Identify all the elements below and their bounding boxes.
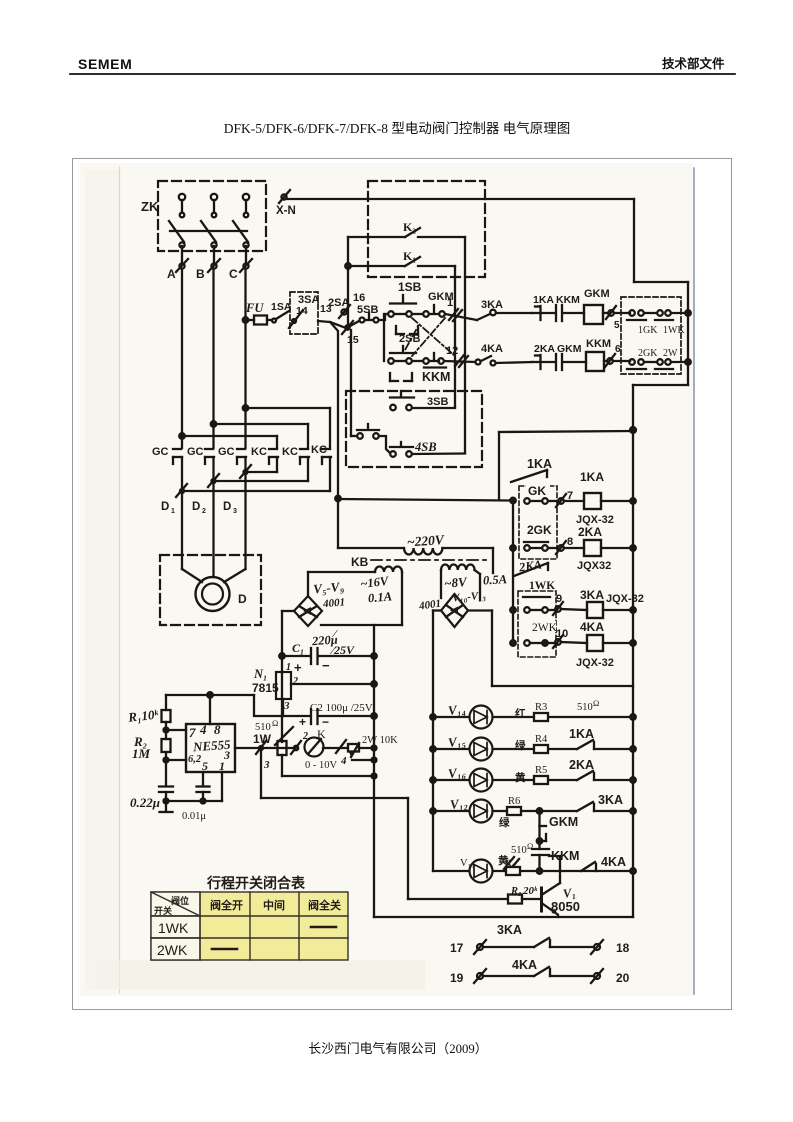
scan right blue edge	[693, 168, 695, 994]
terminal C	[229, 259, 252, 281]
relay K dashed box	[368, 181, 485, 277]
svg-text:Ω: Ω	[527, 841, 533, 851]
svg-text:+: +	[294, 660, 302, 675]
svg-text:5SB: 5SB	[357, 304, 378, 316]
svg-text:阀位: 阀位	[171, 895, 189, 906]
wire relay left rail	[510, 498, 516, 646]
svg-text:1GK: 1GK	[638, 325, 658, 336]
svg-text:−: −	[322, 658, 330, 673]
node GKM KKM junction	[537, 826, 546, 849]
contact K2	[348, 220, 465, 237]
svg-text:2SA: 2SA	[328, 297, 349, 309]
junction slash wire1	[449, 309, 462, 321]
footer company	[308, 1041, 487, 1056]
svg-text:+: +	[299, 715, 306, 729]
header dept label	[662, 56, 725, 71]
svg-text:1M: 1M	[132, 746, 151, 761]
timer NE555	[186, 722, 235, 773]
bridge rectifier V10-V13	[441, 594, 468, 627]
svg-text:0.22μ: 0.22μ	[130, 795, 160, 810]
svg-text:KC: KC	[282, 446, 298, 458]
svg-text:KKM: KKM	[422, 370, 450, 384]
svg-text:7815: 7815	[252, 681, 279, 695]
svg-text:JQX-32: JQX-32	[606, 593, 644, 605]
svg-text:18: 18	[616, 941, 630, 955]
wire A to motor	[182, 457, 202, 582]
svg-text:1: 1	[447, 297, 453, 309]
terminal 3 drop	[256, 741, 270, 798]
svg-text:0.1A: 0.1A	[367, 589, 392, 605]
contact 4KA terminals 19 20	[450, 958, 630, 985]
svg-text:D: D	[238, 592, 247, 606]
contact 2GK row	[524, 523, 556, 551]
breaker ZK dashed box	[141, 181, 266, 251]
node FU tap on C	[243, 317, 249, 323]
wire phase C drop	[244, 246, 247, 448]
contact 4KA	[476, 343, 533, 366]
svg-text:KKM: KKM	[586, 338, 611, 350]
table travel switch	[151, 892, 348, 960]
wire bottom rail	[374, 916, 633, 918]
svg-text:1WK: 1WK	[158, 920, 189, 936]
svg-text:C2 100μ /25V: C2 100μ /25V	[310, 702, 373, 714]
terminal 7	[556, 490, 584, 507]
junction slash wire12	[455, 355, 468, 367]
switch 3SA dashed box	[289, 292, 319, 334]
led V16 row yellow	[430, 758, 636, 792]
wire row2 to KKM contact	[412, 360, 423, 362]
wire row1 to GKM contact	[412, 313, 423, 315]
svg-text:9: 9	[556, 593, 562, 605]
wire bridge2 dc right	[468, 611, 633, 687]
svg-text:1: 1	[171, 508, 175, 515]
svg-text:KC: KC	[251, 446, 267, 458]
svg-text:4: 4	[199, 722, 207, 737]
wire pot bottom rail	[282, 774, 377, 779]
switch 2SA	[318, 297, 350, 328]
svg-text:开关: 开关	[154, 905, 172, 916]
svg-text:2KA: 2KA	[578, 525, 602, 539]
svg-text:FU: FU	[245, 301, 264, 315]
terminal 9	[553, 593, 587, 615]
node C junction	[243, 405, 249, 411]
wire pin6 2	[166, 759, 186, 761]
breaker ZK pole C	[233, 194, 249, 248]
transformer T2 8V	[441, 564, 480, 600]
svg-text:KKM: KKM	[556, 294, 580, 306]
contact GKM nc bars	[541, 343, 586, 370]
svg-text:15: 15	[347, 334, 359, 346]
wire pot to trimmer	[323, 740, 348, 753]
terminal 8	[556, 536, 584, 554]
pushbutton interlock lower	[351, 424, 390, 453]
svg-text:A: A	[167, 267, 176, 281]
coil 3KA	[580, 588, 644, 618]
contact KC 1	[251, 446, 278, 464]
transistor V1 8050	[542, 858, 580, 917]
header SEMEM	[78, 56, 132, 72]
svg-text:GC: GC	[187, 446, 204, 458]
svg-text:X-N: X-N	[276, 205, 296, 217]
svg-text:1KA: 1KA	[580, 470, 604, 484]
svg-text:4: 4	[340, 755, 347, 767]
wire KC1 to C	[246, 457, 278, 472]
wire relay top rail	[499, 431, 633, 500]
regulator N1 7815	[252, 662, 298, 712]
switch 5SB	[350, 304, 388, 326]
contact KKM seal-in	[422, 353, 450, 384]
wire KC2 to B	[214, 457, 309, 481]
node D labels	[161, 501, 237, 515]
wire KC3 to A	[182, 457, 330, 491]
resistor R1 10k	[126, 695, 170, 733]
wire lower rail	[261, 798, 408, 917]
terminal 5	[603, 306, 630, 331]
svg-text:GKM: GKM	[557, 343, 582, 355]
wire row2 to 4KA	[444, 361, 475, 362]
terminal slash C	[240, 465, 251, 478]
svg-text:V₁₄: V₁₄	[447, 701, 466, 718]
outer frame box	[73, 159, 732, 1010]
terminal block dashed box right	[621, 297, 681, 374]
svg-text:20: 20	[616, 971, 630, 985]
svg-text:V₅-V₉: V₅-V₉	[313, 579, 345, 597]
motor D dashed box	[160, 555, 261, 625]
wire row1 to bus	[671, 310, 691, 316]
contact 2WK row	[524, 621, 568, 646]
wire pin7	[166, 729, 186, 731]
svg-text:K: K	[317, 727, 326, 741]
svg-text:1: 1	[286, 662, 291, 673]
svg-text:4SB: 4SB	[414, 440, 437, 454]
breaker ZK pole B	[201, 194, 217, 248]
contact KC 3	[311, 444, 331, 464]
svg-text:4KA: 4KA	[512, 958, 537, 972]
contact 3KA	[477, 299, 532, 320]
svg-text:2: 2	[302, 731, 308, 742]
wire X-N bus	[287, 198, 634, 200]
svg-text:V₁₁: V₁₁	[460, 858, 475, 869]
fuse FU	[245, 301, 267, 325]
inductor KB primary 220V	[404, 532, 445, 555]
svg-text:2KA: 2KA	[569, 758, 594, 772]
svg-text:19: 19	[450, 971, 464, 985]
led V14 row red	[430, 698, 636, 729]
svg-text:2W: 2W	[663, 348, 678, 359]
svg-text:1WK: 1WK	[529, 580, 555, 592]
title	[224, 121, 571, 136]
wire control rail	[338, 499, 513, 501]
svg-text:GC: GC	[152, 446, 169, 458]
wire A to KC1	[182, 436, 277, 448]
led V11 row yellow	[433, 841, 636, 883]
svg-text:阀全开: 阀全开	[210, 898, 243, 912]
svg-text:B: B	[196, 267, 205, 281]
svg-text:16: 16	[353, 292, 365, 304]
contact GKM aux	[540, 811, 579, 829]
svg-text:~220V: ~220V	[406, 532, 445, 550]
svg-text:4KA: 4KA	[601, 855, 626, 869]
svg-text:GKM: GKM	[584, 288, 610, 300]
svg-text:ZK: ZK	[141, 199, 159, 214]
scan background tint	[80, 163, 694, 996]
wire B to KC2	[214, 424, 309, 448]
svg-text:0.5A: 0.5A	[483, 572, 508, 587]
svg-text:3SB: 3SB	[427, 396, 448, 408]
wire C to KC3	[246, 408, 331, 448]
led V15 row green	[430, 727, 636, 761]
svg-text:6,2: 6,2	[188, 754, 202, 765]
svg-text:3: 3	[233, 508, 237, 515]
svg-text:技术部文件: 技术部文件	[662, 56, 725, 71]
contact GC phase C	[218, 446, 246, 464]
svg-text:8: 8	[567, 536, 573, 548]
terminal slash A	[176, 484, 187, 497]
transformer T1 labels	[313, 574, 393, 611]
svg-text:2: 2	[292, 676, 298, 687]
svg-text:C₁: C₁	[292, 641, 304, 655]
button frame left bracket	[384, 314, 412, 381]
svg-text:1WK: 1WK	[663, 325, 685, 336]
wire 7815 bottom	[282, 699, 284, 716]
svg-text:3KA: 3KA	[580, 588, 604, 602]
bridge rectifier V5-V9	[294, 596, 322, 626]
node B junction	[211, 421, 217, 427]
wire pin3 out	[235, 747, 292, 749]
wire K1 right drop to 3SB	[454, 266, 456, 407]
svg-text:8050: 8050	[551, 899, 580, 914]
trimmer 2W 10K	[340, 735, 398, 767]
wire B to motor	[212, 457, 214, 577]
svg-text:D: D	[161, 501, 169, 513]
svg-text:C: C	[229, 267, 238, 281]
node 15	[342, 321, 359, 346]
wire 220V loop	[338, 499, 404, 549]
wire 15 drop	[350, 330, 352, 436]
wire 13 drop	[331, 323, 341, 501]
cam switch KB label	[351, 555, 490, 569]
svg-text:JQX-32: JQX-32	[576, 657, 614, 669]
wire bridge1 dc left	[282, 611, 294, 742]
wire left vert to pot rail	[281, 755, 283, 776]
svg-text:510: 510	[511, 845, 527, 856]
svg-text:3KA: 3KA	[598, 793, 623, 807]
svg-text:DFK-5/DFK-6/DFK-7/DFK-8 型电动阀门控: DFK-5/DFK-6/DFK-7/DFK-8 型电动阀门控制器 电气原理图	[224, 121, 571, 136]
svg-text:R3: R3	[535, 702, 547, 713]
svg-text:2WK: 2WK	[532, 622, 558, 634]
contact 1KA blade	[511, 457, 552, 482]
bus right frame	[630, 199, 688, 433]
svg-text:行程开关闭合表: 行程开关闭合表	[206, 875, 306, 891]
breaker ZK tie bar	[170, 230, 247, 232]
contact 2WK link	[644, 348, 678, 369]
svg-text:510: 510	[577, 702, 593, 713]
contact GK row	[524, 498, 556, 504]
coil 4KA	[576, 620, 636, 669]
terminal 10	[553, 635, 587, 648]
svg-text:1KA: 1KA	[527, 457, 552, 471]
svg-text:KKM: KKM	[551, 849, 579, 863]
svg-text:R₇: R₇	[503, 857, 516, 870]
pushbutton 3SB 4SB dashed box	[346, 391, 482, 467]
svg-text:阀全关: 阀全关	[308, 898, 341, 912]
terminal 6	[604, 344, 630, 367]
contact 1WK link	[644, 310, 685, 336]
resistor R8 20k	[408, 885, 540, 904]
wire K2 right drop to 4SB	[464, 237, 466, 453]
contact KKM aux bars	[532, 849, 579, 871]
svg-text:7: 7	[189, 725, 196, 740]
svg-text:4KA: 4KA	[481, 343, 503, 355]
svg-text:1KA: 1KA	[533, 294, 554, 306]
wire dc plus rail	[373, 625, 375, 798]
wire pin4 8	[209, 695, 211, 724]
capacitor 0.22u	[130, 760, 173, 812]
wire 220V right	[443, 548, 494, 573]
pushbutton 4SB	[390, 440, 465, 457]
svg-text:GK: GK	[528, 484, 546, 498]
transformer T1 16V secondary	[308, 567, 402, 626]
svg-text:V₁₆: V₁₆	[447, 764, 467, 781]
svg-text:Ω: Ω	[272, 718, 278, 728]
svg-text:绿: 绿	[515, 739, 526, 752]
contact GKM seal-in	[423, 291, 453, 317]
transformer T2 labels	[417, 572, 507, 612]
wire phase A drop	[181, 246, 183, 448]
contact 2KA blade	[514, 557, 548, 576]
header rule	[70, 73, 735, 75]
svg-text:KB: KB	[351, 555, 369, 569]
contact 2KA nc	[532, 343, 555, 369]
pushbutton 1SB	[388, 280, 421, 317]
svg-text:1SA: 1SA	[271, 301, 292, 313]
contact KC 2	[282, 446, 309, 464]
svg-text:绿: 绿	[499, 816, 510, 829]
pushbutton 2SB	[388, 326, 420, 364]
contact 2GK	[627, 348, 658, 369]
contact 1KA nc	[532, 294, 554, 320]
contact 1GK	[627, 310, 658, 336]
svg-text:20ᵏ: 20ᵏ	[522, 885, 538, 897]
wire bridge2 dc left to LED bus	[433, 611, 441, 872]
svg-text:3: 3	[263, 759, 270, 771]
svg-text:R6: R6	[508, 796, 520, 807]
svg-text:Ω: Ω	[593, 698, 599, 708]
svg-text:D: D	[192, 501, 200, 513]
wire row1 to 3KA	[445, 314, 477, 320]
contact 1WK row	[524, 607, 554, 613]
svg-text:2GK: 2GK	[527, 523, 552, 537]
capacitor C1	[279, 628, 377, 675]
coil GKM	[584, 288, 610, 324]
svg-text:2: 2	[202, 508, 206, 515]
svg-text:0.01μ: 0.01μ	[182, 811, 206, 822]
svg-text:D: D	[223, 501, 231, 513]
wire row2 to bus	[671, 359, 691, 365]
pushbutton 3SB	[390, 391, 455, 410]
wire 555 supply rail	[166, 692, 282, 716]
capacitor C2	[282, 702, 377, 729]
svg-text:R4: R4	[535, 734, 548, 745]
wire phase B drop	[212, 246, 215, 448]
contact GC phase A	[152, 446, 182, 464]
svg-text:红: 红	[515, 707, 526, 720]
svg-text:1KA: 1KA	[569, 727, 594, 741]
wire right bus	[632, 430, 634, 917]
svg-text:2GK: 2GK	[638, 348, 658, 359]
wire C to motor	[224, 457, 246, 582]
svg-text:中间: 中间	[263, 898, 285, 912]
svg-text:SEMEM: SEMEM	[78, 56, 132, 72]
contact GC phase B	[187, 446, 214, 464]
switch 1SA	[267, 301, 292, 323]
svg-text:0 - 10V: 0 - 10V	[305, 760, 337, 771]
svg-text:1SB: 1SB	[398, 280, 422, 294]
resistor R2 1M	[132, 730, 171, 763]
contact K1	[348, 249, 455, 266]
terminal slash B	[208, 474, 219, 487]
svg-text:12: 12	[446, 345, 458, 357]
svg-text:4KA: 4KA	[580, 620, 604, 634]
svg-text:2KA: 2KA	[534, 343, 555, 355]
svg-text:V₁₂: V₁₂	[449, 795, 468, 812]
resistor 510 1W	[253, 718, 293, 755]
svg-text:GC: GC	[218, 446, 235, 458]
svg-text:5: 5	[614, 320, 620, 331]
terminal B	[196, 259, 220, 281]
contact KKM nc bars	[541, 294, 584, 321]
svg-text:R5: R5	[535, 765, 547, 776]
svg-text:黄: 黄	[515, 771, 526, 784]
svg-text:JQX32: JQX32	[577, 560, 611, 572]
scan left edge shadow	[119, 167, 121, 993]
coil 2KA	[577, 525, 636, 572]
node A junction	[179, 433, 185, 439]
potentiometer K	[291, 727, 337, 771]
switch GK dashed box	[519, 484, 557, 559]
terminal X-N	[276, 190, 296, 217]
svg-text:~8V: ~8V	[443, 574, 468, 591]
contact 3KA terminals 17 18	[450, 923, 630, 955]
coil 1KA	[576, 470, 636, 526]
svg-text:2WK: 2WK	[157, 942, 188, 958]
svg-text:4001: 4001	[322, 596, 346, 610]
svg-text:N₁: N₁	[253, 667, 267, 681]
svg-text:V₁₅: V₁₅	[447, 733, 466, 750]
capacitor 0.01u	[182, 772, 210, 822]
svg-text:17: 17	[450, 941, 464, 955]
linkage dash-dot	[405, 318, 455, 356]
svg-text:长沙西门电气有限公司（2009）: 长沙西门电气有限公司（2009）	[308, 1041, 487, 1056]
switch 1WK dashed box	[518, 578, 556, 657]
breaker ZK pole A	[169, 194, 185, 248]
svg-text:⁄25V: ⁄25V	[329, 643, 355, 657]
svg-text:3KA: 3KA	[497, 923, 522, 937]
wire K left rail	[345, 237, 351, 327]
svg-text:6: 6	[615, 344, 621, 355]
motor D	[196, 577, 248, 611]
wire 7815 out	[291, 681, 377, 687]
svg-text:8: 8	[214, 722, 221, 737]
svg-text:2W 10K: 2W 10K	[362, 735, 398, 746]
svg-text:R₈: R₈	[510, 886, 522, 897]
coil KKM	[586, 338, 611, 371]
led V12 row green	[430, 793, 636, 829]
svg-text:GKM: GKM	[549, 815, 578, 829]
terminal A	[167, 259, 188, 281]
wire 555 ground rail	[166, 772, 222, 801]
